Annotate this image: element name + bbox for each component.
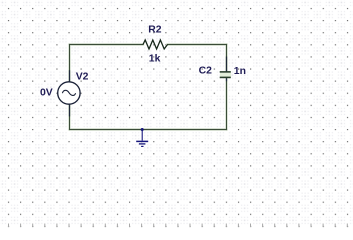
svg-text:C2: C2 <box>199 65 213 76</box>
svg-text:1n: 1n <box>234 66 246 77</box>
svg-text:1k: 1k <box>149 54 161 65</box>
svg-text:0V: 0V <box>40 88 53 99</box>
svg-text:R2: R2 <box>148 24 162 35</box>
svg-text:V2: V2 <box>76 72 89 83</box>
